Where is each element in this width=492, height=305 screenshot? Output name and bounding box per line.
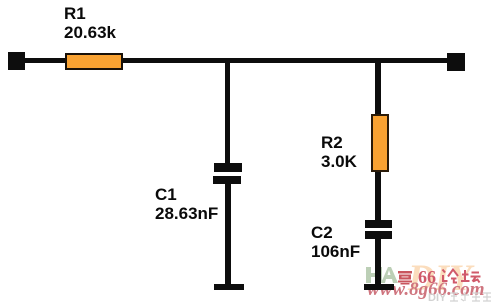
svg-text:DIY: DIY <box>428 292 447 303</box>
